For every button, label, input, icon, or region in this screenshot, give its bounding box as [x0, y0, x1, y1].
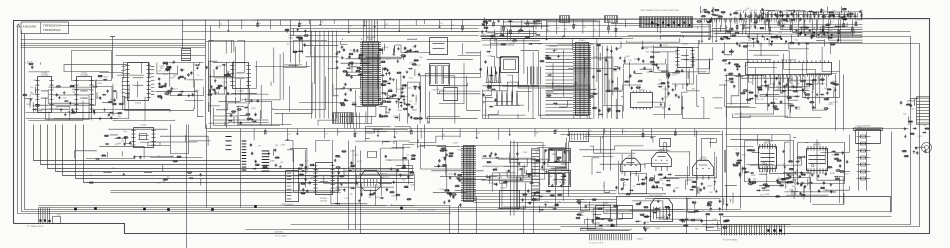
- transistor Q603: [693, 157, 714, 180]
- svg-text:18: 18: [696, 132, 698, 134]
- svg-text:IC402: IC402: [682, 43, 689, 45]
- svg-text:IC603: IC603: [135, 103, 142, 105]
- perimeter wire 2 (left/bottom wrap): [22, 31, 892, 212]
- svg-text:94: 94: [813, 28, 815, 30]
- svg-text:60u: 60u: [412, 109, 415, 111]
- cluster below Q601: [615, 175, 647, 196]
- svg-text:86: 86: [805, 26, 807, 28]
- dense IC401 (tall): [573, 40, 591, 116]
- cluster right of connector: [250, 143, 286, 170]
- svg-text:77p: 77p: [36, 96, 39, 98]
- cluster E (discrete parts): [206, 64, 232, 96]
- svg-text:75: 75: [338, 132, 340, 134]
- wire mesh row2 centerB: [421, 143, 566, 209]
- cluster x385 row2: [385, 155, 416, 200]
- vertical x866: [866, 132, 868, 191]
- staircase wire 3: [48, 125, 414, 169]
- ferrite bead L3: [143, 208, 146, 211]
- cluster x625: [623, 44, 668, 91]
- cluster below IC801 extra: [775, 77, 838, 109]
- cluster below Q603: [689, 180, 717, 194]
- svg-text:J101: J101: [57, 215, 61, 217]
- cluster top right band 4: [720, 25, 783, 48]
- IC1602 label: [320, 198, 328, 202]
- svg-text:85: 85: [375, 23, 377, 25]
- svg-text:30: 30: [307, 167, 309, 169]
- svg-text:52u: 52u: [258, 146, 261, 148]
- wire y190: [111, 190, 341, 192]
- svg-text:15: 15: [197, 75, 199, 77]
- svg-text:T601 FLYBACK: T601 FLYBACK: [649, 195, 664, 198]
- svg-text:84: 84: [406, 97, 408, 99]
- svg-text:61: 61: [220, 24, 222, 26]
- cluster below Q602: [649, 173, 681, 192]
- cluster right of IC804: [827, 150, 850, 186]
- svg-text:82: 82: [386, 24, 388, 26]
- perimeter wire 4 (top/right wrap): [291, 37, 911, 225]
- IC604: [230, 63, 250, 93]
- cluster right edge parts: [902, 125, 930, 157]
- staircase wire 5: [63, 125, 414, 176]
- svg-text:56: 56: [349, 50, 351, 52]
- wire mesh row1 centerC: [483, 39, 623, 119]
- verticals x348-360: [349, 141, 361, 234]
- cluster left of IC401: [539, 46, 572, 107]
- IC602: [74, 72, 93, 112]
- title text A-BOARD: [23, 25, 38, 29]
- vertical wire x290: [290, 20, 292, 63]
- svg-text:13: 13: [669, 105, 671, 107]
- svg-text:75: 75: [537, 25, 539, 27]
- degauss coil bar: [854, 128, 883, 131]
- connector columns: [242, 141, 270, 171]
- svg-text:79p: 79p: [824, 88, 827, 90]
- wire mesh row1 left: [29, 63, 204, 121]
- svg-text:65p: 65p: [569, 100, 572, 102]
- top bus stubs B: [701, 20, 857, 42]
- title text part numbers: [43, 24, 61, 32]
- dark specks top right B: [796, 30, 833, 36]
- connector CN302 (dark comb): [333, 113, 353, 124]
- cluster top F: [284, 28, 308, 53]
- cluster x490 mid: [481, 152, 528, 186]
- IC403 dip: [631, 90, 653, 110]
- wire mesh row1 right: [725, 43, 840, 118]
- IC201: [131, 128, 155, 148]
- bottom bus wire 2: [39, 205, 451, 207]
- region box IC601 area: [72, 51, 112, 81]
- cluster between IC601 IC602: [55, 85, 76, 116]
- svg-text:72: 72: [594, 29, 596, 31]
- ferrite bead L4: [167, 208, 170, 211]
- vertical wire x186: [186, 125, 188, 248]
- vertical x843: [843, 75, 845, 131]
- capacitor row top right: [739, 10, 863, 20]
- cluster top right band 3: [808, 7, 862, 23]
- IC801 (long horizontal): [746, 59, 832, 77]
- svg-text:56: 56: [623, 131, 625, 133]
- vertical bundle x510: [511, 141, 518, 216]
- svg-text:99p: 99p: [558, 202, 561, 204]
- svg-text:A-BOARD: A-BOARD: [23, 25, 38, 29]
- waveform box VM301: [430, 64, 450, 86]
- wire mesh row1 centerB: [341, 39, 481, 124]
- wire mesh row1 centerD: [624, 41, 723, 119]
- IC201 label: [141, 125, 148, 127]
- vertical x835: [835, 75, 837, 131]
- svg-text:Q545: Q545: [823, 190, 829, 192]
- svg-text:11p: 11p: [350, 194, 353, 196]
- svg-text:64: 64: [765, 21, 767, 23]
- svg-text:54p: 54p: [719, 201, 722, 203]
- svg-text:81u: 81u: [407, 155, 410, 157]
- svg-text:Q816: Q816: [675, 188, 681, 190]
- dark specks top strip: [652, 22, 691, 26]
- svg-text:LA7910: LA7910: [320, 199, 328, 202]
- svg-text:43p: 43p: [903, 114, 906, 116]
- staircase wire 4: [56, 125, 414, 172]
- svg-text:43: 43: [924, 125, 926, 127]
- small block x857: [856, 127, 881, 144]
- svg-text:69u: 69u: [789, 90, 792, 92]
- wire mesh row1 centerA: [209, 41, 339, 126]
- cluster top right band 1: [696, 6, 749, 24]
- svg-text:TO TUNER CN101: TO TUNER CN101: [27, 226, 45, 228]
- power section box 1: [745, 141, 794, 182]
- cluster left of IC101: [438, 148, 465, 207]
- bottom wire y216: [723, 216, 892, 218]
- svg-text:50u: 50u: [286, 44, 289, 46]
- wire y192: [111, 192, 341, 194]
- IC1602: [313, 163, 334, 195]
- pin connection note text: [641, 10, 680, 12]
- svg-text:80: 80: [567, 59, 569, 61]
- wire y55 left: [116, 55, 206, 57]
- tuner hexagon TU1601: [361, 171, 381, 191]
- vertical wires x603: [604, 129, 611, 171]
- dark specks top right A: [748, 36, 787, 43]
- IC301 main jungle IC: [360, 39, 381, 106]
- svg-text:37: 37: [831, 22, 833, 24]
- svg-text:94: 94: [321, 21, 323, 23]
- wire y145: [474, 145, 546, 147]
- svg-text:55: 55: [565, 28, 567, 30]
- svg-text:86u: 86u: [695, 229, 698, 231]
- cluster below IC402: [660, 69, 696, 111]
- svg-text:79: 79: [549, 176, 551, 178]
- cluster sub-board right: [700, 198, 730, 228]
- svg-text:A-BOARD: A-BOARD: [275, 231, 284, 234]
- svg-text:18u: 18u: [797, 109, 800, 111]
- box PS1: [596, 206, 611, 219]
- note text 1/2 T: [26, 62, 34, 65]
- svg-text:60u: 60u: [30, 87, 33, 89]
- box below waveform: [444, 88, 458, 101]
- svg-text:71u: 71u: [385, 108, 388, 110]
- vertical x722: [723, 75, 727, 211]
- svg-text:48: 48: [599, 60, 601, 62]
- svg-text:96: 96: [605, 131, 607, 133]
- small IC box x569: [570, 132, 589, 142]
- ferrite bead L2: [94, 207, 97, 210]
- IC603: [125, 63, 150, 105]
- svg-text:56: 56: [557, 27, 559, 29]
- mid bus wire 2: [208, 131, 721, 133]
- svg-text:13p: 13p: [759, 45, 762, 47]
- svg-text:63p: 63p: [796, 83, 799, 85]
- svg-text:50p: 50p: [124, 131, 127, 133]
- IC301 left wire bundle: [312, 31, 337, 119]
- svg-text:Q685: Q685: [159, 66, 165, 68]
- waveform box 4: [549, 171, 571, 187]
- top bus wire: [61, 25, 641, 27]
- svg-text:86u: 86u: [760, 194, 763, 196]
- IC601: [35, 72, 53, 112]
- svg-text:88: 88: [536, 132, 538, 134]
- svg-text:76: 76: [349, 26, 351, 28]
- waveform box 3: [549, 149, 571, 163]
- svg-text:91u: 91u: [594, 88, 597, 90]
- top bus stubs C: [219, 20, 463, 33]
- verticals x523-533: [524, 197, 534, 234]
- vertical x740: [740, 75, 742, 209]
- cluster left of IC601: [22, 63, 40, 110]
- bus lines y28-35: [291, 29, 479, 36]
- top bus stubs A: [485, 20, 625, 41]
- ferrite bead L1: [74, 208, 77, 211]
- svg-text:TO DY CN501: TO DY CN501: [275, 236, 287, 238]
- svg-text:68: 68: [73, 91, 75, 93]
- CN1601 connector: [286, 171, 299, 202]
- svg-text:10: 10: [735, 149, 737, 151]
- waveform label: [432, 90, 445, 92]
- cluster x530 mid: [527, 148, 570, 187]
- mesh row2 top center: [366, 127, 461, 147]
- svg-text:65u: 65u: [662, 184, 665, 186]
- svg-text:32: 32: [395, 133, 397, 135]
- svg-text:41u: 41u: [460, 187, 463, 189]
- wire IC601 area 2: [26, 118, 119, 120]
- connector box CN301: [182, 49, 191, 61]
- label smudge row2: [337, 190, 346, 192]
- text below CN802: [723, 239, 739, 242]
- IC101 label: [453, 143, 459, 145]
- svg-text:IC101: IC101: [453, 143, 459, 145]
- bottom bus wire 3: [246, 229, 561, 231]
- cluster left of IC301: [335, 45, 366, 106]
- IC301 sublabel: [366, 36, 376, 39]
- svg-text:50: 50: [460, 182, 462, 184]
- cluster right of IC1602: [334, 150, 363, 200]
- svg-text:91: 91: [737, 13, 739, 15]
- svg-text:TO CRT BOARD: TO CRT BOARD: [723, 239, 739, 242]
- perimeter wire 3 (left/bottom wrap): [25, 34, 741, 210]
- wire mesh row2 center: [285, 141, 415, 206]
- cluster right of IC301: [378, 44, 423, 120]
- staircase wire 6: [76, 125, 414, 179]
- svg-text:44p: 44p: [30, 92, 33, 94]
- cluster right of IC401: [589, 41, 622, 115]
- title box: [21, 22, 69, 34]
- svg-text:13p: 13p: [353, 52, 356, 54]
- mid bus wire 1: [206, 128, 909, 130]
- svg-text:87p: 87p: [420, 57, 423, 59]
- wire mesh row2 right: [725, 135, 850, 205]
- CN1601 label: [281, 203, 294, 206]
- cluster below tuner: [358, 189, 384, 202]
- resistor array RA801 (dense strip): [640, 17, 693, 28]
- svg-text:55p: 55p: [402, 180, 405, 182]
- small box x660: [660, 139, 671, 147]
- wire y41: [206, 41, 481, 43]
- svg-text:35: 35: [345, 170, 347, 172]
- vertical wire x182: [182, 20, 184, 49]
- regulator box IC1601: [500, 188, 520, 209]
- IC801 pin fan down: [749, 75, 827, 91]
- svg-text:39: 39: [722, 14, 724, 16]
- vertical x696: [696, 131, 698, 197]
- cluster below power ICs: [748, 169, 837, 198]
- vertical x568: [568, 142, 570, 197]
- svg-text:13u: 13u: [701, 210, 704, 212]
- CRT socket circle: [922, 143, 932, 153]
- perimeter wire 1 (left/bottom wrap): [18, 28, 451, 214]
- svg-text:12: 12: [29, 95, 31, 97]
- svg-text:44: 44: [288, 134, 290, 136]
- svg-text:12u: 12u: [811, 91, 814, 93]
- nested wire bundle top left: [21, 40, 206, 48]
- tuner label: [383, 177, 391, 179]
- svg-text:TMP9635SA0: TMP9635SA0: [43, 28, 61, 32]
- connector bundle bottom left: [39, 208, 61, 224]
- staircase wire 1: [34, 125, 241, 161]
- connector CN601 ticks: [581, 234, 641, 241]
- svg-text:Q531: Q531: [97, 83, 103, 85]
- perimeter wire 5 (top/right wrap): [491, 44, 920, 227]
- cluster left of IC801: [719, 49, 749, 94]
- cluster right of regulator: [522, 189, 563, 213]
- cluster row2 sparse: [89, 155, 202, 186]
- svg-text:19p: 19p: [121, 141, 124, 143]
- cluster around IC803 left: [732, 149, 756, 187]
- svg-text:64: 64: [325, 134, 327, 136]
- wire mesh top band: [481, 21, 711, 43]
- cluster below IC604: [226, 97, 259, 125]
- label text block: [381, 174, 388, 180]
- svg-text:93p: 93p: [118, 116, 121, 118]
- svg-text:IC604: IC604: [238, 91, 245, 93]
- cluster top right band 5: [781, 24, 842, 47]
- svg-text:CN601: CN601: [637, 239, 644, 241]
- svg-text:TA8659AN: TA8659AN: [366, 36, 376, 39]
- antenna stub x112: [110, 37, 115, 79]
- bottom left text 2: [57, 215, 61, 217]
- cluster below IC301: [378, 91, 419, 120]
- staircase wire 2: [41, 125, 241, 165]
- bus connector J501: [560, 16, 570, 23]
- IC501 (X501 filter): [501, 57, 519, 78]
- svg-text:IC403: IC403: [639, 90, 646, 92]
- svg-text:12u: 12u: [646, 72, 649, 74]
- svg-text:49u: 49u: [55, 108, 58, 110]
- power section box 2: [798, 143, 845, 184]
- vertical wire x210: [210, 26, 212, 129]
- svg-text:44: 44: [659, 80, 661, 82]
- wires right of IC101: [474, 191, 617, 203]
- pin marks IC603: [122, 66, 155, 96]
- svg-text:241: 241: [755, 10, 758, 12]
- svg-text:86: 86: [784, 24, 786, 26]
- cluster top bus parts: [481, 17, 542, 45]
- cluster below IC801: [741, 77, 840, 113]
- degauss label: [856, 125, 871, 128]
- svg-text:25: 25: [379, 132, 381, 134]
- svg-text:IC1601: IC1601: [501, 188, 508, 190]
- mid bus wire 3: [561, 134, 723, 136]
- vertical x417: [417, 125, 419, 149]
- svg-text:55: 55: [726, 27, 728, 29]
- svg-text:44: 44: [414, 103, 416, 105]
- cluster left of IC201: [104, 131, 132, 146]
- box PS2: [618, 206, 633, 219]
- wire loop x170: [171, 125, 189, 154]
- svg-text:54: 54: [633, 186, 635, 188]
- svg-text:30p: 30p: [392, 54, 395, 56]
- vertical wire x310: [310, 20, 312, 56]
- connector CN801 right edge: [917, 97, 930, 125]
- svg-text:IC301: IC301: [368, 39, 375, 41]
- svg-text:38u: 38u: [786, 178, 789, 180]
- svg-text:1 2 3 4 5 6 7 8 9: 1 2 3 4 5 6 7 8 9: [589, 243, 604, 245]
- transistor Q602: [652, 149, 672, 171]
- cluster sub-board mid: [635, 200, 699, 233]
- svg-text:83: 83: [590, 131, 592, 133]
- svg-text:77p: 77p: [795, 92, 798, 94]
- mid bus stubs: [254, 129, 698, 141]
- svg-text:74p: 74p: [795, 39, 798, 41]
- warning triangle: [17, 24, 20, 27]
- svg-text:19: 19: [502, 158, 504, 160]
- small rect x367: [368, 152, 377, 158]
- sub-board outline: [617, 197, 891, 227]
- vertical x424: [424, 125, 426, 149]
- IC401 pin fan left: [546, 46, 574, 115]
- waveform sketch 1: [486, 67, 502, 83]
- vertical x240: [240, 129, 242, 208]
- IC301 top feed bundle: [364, 20, 378, 42]
- stub comb top right: [702, 18, 800, 22]
- svg-text:IC401: IC401: [579, 40, 586, 42]
- flyback T601: [649, 195, 673, 222]
- svg-text:64: 64: [750, 26, 752, 28]
- svg-text:35u: 35u: [555, 105, 558, 107]
- IC803: [759, 140, 777, 172]
- verticals x449-476: [450, 197, 477, 234]
- vertical wire x205: [205, 20, 207, 129]
- svg-text:56: 56: [387, 59, 389, 61]
- ferrite bead L6: [254, 205, 257, 208]
- svg-text:87p: 87p: [776, 89, 779, 91]
- svg-text:63: 63: [440, 23, 442, 25]
- cluster labels near CN801: [900, 98, 918, 126]
- vertical x858: [858, 132, 860, 191]
- connector col x560: [561, 164, 567, 180]
- cluster top right band 2: [747, 8, 802, 24]
- cluster left of IC1602: [297, 161, 319, 195]
- svg-text:32p: 32p: [359, 97, 362, 99]
- svg-text:PIN CONNECTION OF IC801 IC802: PIN CONNECTION OF IC801 IC802 IC803: [641, 10, 680, 12]
- svg-text:13u: 13u: [110, 99, 113, 101]
